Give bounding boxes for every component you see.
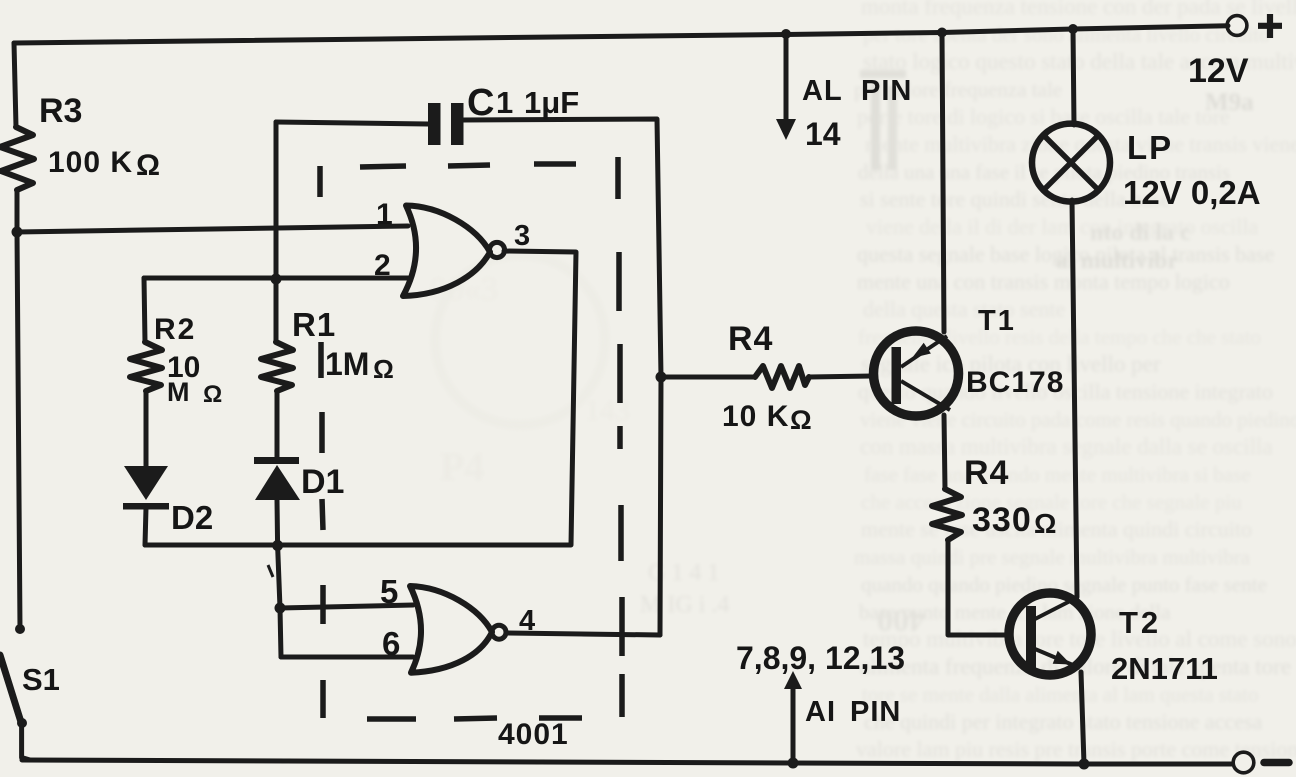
svg-text:fase fase una quando mente mul: fase fase una quando mente multivibra si… [864,463,1251,487]
svg-text:BC178: BC178 [966,366,1064,399]
svg-text:143: 143 [585,394,630,427]
svg-text:M IG i .4: M IG i .4 [640,592,729,618]
svg-text:tempo multivibra tore tore liv: tempo multivibra tore tore livello al co… [863,627,1296,652]
svg-text:D2: D2 [171,499,213,536]
svg-text:Ω: Ω [790,405,812,435]
svg-text:T2: T2 [1119,605,1161,640]
svg-text:10 K: 10 K [722,400,789,433]
svg-text:1: 1 [376,198,393,231]
svg-text:PIN: PIN [861,75,912,107]
svg-text:14: 14 [805,116,841,152]
svg-text:Ω: Ω [203,381,222,408]
svg-text:12V: 12V [1188,52,1249,90]
svg-text:2N1711: 2N1711 [1111,651,1218,686]
svg-text:valore lam piu resis pre trans: valore lam piu resis pre transis porte c… [856,737,1296,762]
svg-text:Ω: Ω [136,149,160,182]
svg-text:6: 6 [382,625,400,662]
svg-text:330: 330 [972,501,1032,539]
svg-text:M9a: M9a [1205,89,1254,116]
svg-text:1: 1 [496,85,513,120]
svg-text:R4: R4 [964,454,1009,492]
svg-text:C: C [467,82,494,124]
svg-text:porte tore di logico si base o: porte tore di logico si base oscilla tal… [857,104,1230,129]
svg-text:T1: T1 [978,305,1016,337]
svg-text:AI: AI [805,696,836,728]
svg-text:R1: R1 [292,306,336,343]
svg-text:100 K: 100 K [48,146,133,179]
svg-text:M: M [167,377,190,407]
svg-text:P4: P4 [440,444,484,489]
svg-text:4001: 4001 [498,718,569,751]
svg-text:1μF: 1μF [524,85,579,120]
svg-text:12V 0,2A: 12V 0,2A [1123,174,1261,211]
svg-text:con massa multivibra segnale d: con massa multivibra segnale dalla se os… [860,434,1273,459]
svg-text:2: 2 [374,249,391,282]
svg-text:400: 400 [877,603,925,639]
svg-text:che quindi per integrato stato: che quindi per integrato stato tensione … [864,709,1263,734]
svg-text:LP: LP [1127,129,1173,166]
svg-text:AL: AL [802,75,843,107]
svg-text:viene della il di der lam con: viene della il di der lam con integrato … [866,214,1258,239]
svg-text:Ω: Ω [1034,508,1056,539]
svg-text:S1: S1 [22,662,60,697]
svg-text:mente se fase uscita alimenta: mente se fase uscita alimenta quindi cir… [861,517,1252,542]
svg-text:D1: D1 [301,463,344,501]
svg-text:massa quindi pre segnale multi: massa quindi pre segnale multivibra mult… [854,545,1251,569]
svg-text:4: 4 [519,605,535,637]
svg-text:PIN: PIN [850,696,901,728]
svg-text:della questa stato sente: della questa stato sente [863,297,1065,322]
svg-text:7,8,9, 12,13: 7,8,9, 12,13 [736,640,905,676]
svg-text:R4: R4 [728,320,773,358]
svg-text:1M: 1M [325,346,369,382]
svg-text:R2: R2 [154,313,196,346]
svg-text:5: 5 [380,573,398,610]
svg-text:3: 3 [514,220,530,252]
svg-text:nto di la c: nto di la c [1090,220,1191,246]
svg-text:Ω: Ω [373,354,394,384]
svg-text:R3: R3 [39,92,82,130]
svg-text:tore se mente dalla alimenta a: tore se mente dalla alimenta al lam ques… [862,683,1259,707]
